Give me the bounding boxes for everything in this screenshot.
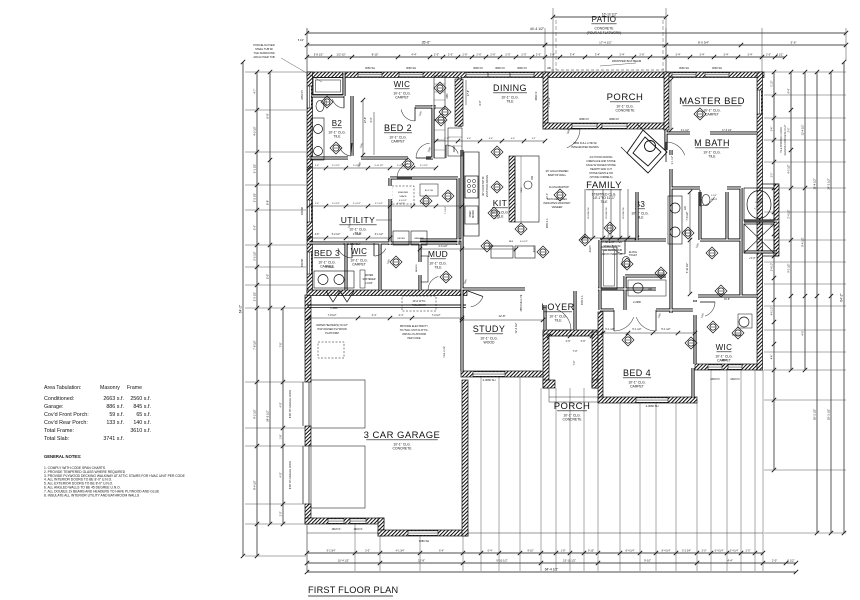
dim line right seg3 <box>804 72 806 370</box>
svg-text:PROVIDE ELECTRICITY: PROVIDE ELECTRICITY <box>400 325 429 328</box>
svg-text:2-1880: 2-1880 <box>330 308 338 310</box>
svg-text:2480: 2480 <box>447 93 449 99</box>
svg-text:3080 FX: 3080 FX <box>609 117 619 121</box>
right extension lines <box>764 71 846 73</box>
fireplace corner <box>621 124 667 173</box>
patio dim 16-10 <box>553 16 666 18</box>
svg-text:SOFTENER: SOFTENER <box>362 278 375 281</box>
svg-text:1'-8": 1'-8" <box>561 550 566 553</box>
svg-text:+ 5'-3": + 5'-3" <box>749 257 756 260</box>
svg-text:65 s.f.: 65 s.f. <box>136 412 151 418</box>
svg-text:KIT: KIT <box>493 198 507 208</box>
dim string wic1 vertical <box>465 80 467 105</box>
utility freezer <box>392 186 414 204</box>
hall linen closets <box>434 76 445 108</box>
b2 toilet <box>316 101 324 112</box>
svg-text:886 s.f.: 886 s.f. <box>106 404 124 410</box>
svg-text:TILE: TILE <box>434 266 442 270</box>
mbath toilet <box>702 195 710 206</box>
svg-text:12'-0": 12'-0" <box>667 97 670 103</box>
interior walls <box>309 72 777 398</box>
dim string kitchen <box>420 248 516 250</box>
svg-text:54'-5 1/2": 54'-5 1/2" <box>266 410 270 421</box>
svg-text:4'-0": 4'-0" <box>280 402 283 407</box>
door arcs bed4 double <box>614 317 634 331</box>
dim string master vertical <box>670 80 672 130</box>
svg-text:FLUSH BARTOP: FLUSH BARTOP <box>549 185 569 189</box>
svg-text:8'-4 1/4": 8'-4 1/4" <box>662 550 671 553</box>
svg-text:ARCH OVER TUB: ARCH OVER TUB <box>253 55 275 59</box>
garage interior rects <box>311 380 365 428</box>
svg-text:4'-0": 4'-0" <box>280 472 283 477</box>
svg-text:ARCH: ARCH <box>589 245 592 252</box>
svg-text:3080 SH: 3080 SH <box>419 539 430 543</box>
svg-text:2'-5 1/2": 2'-5 1/2" <box>253 251 257 261</box>
door gaps in interior walls <box>348 156 361 161</box>
svg-text:64'-2": 64'-2" <box>840 292 844 301</box>
svg-text:TILE SHOWER FLOOR: TILE SHOWER FLOOR <box>780 127 783 153</box>
svg-text:2'-6": 2'-6" <box>462 53 467 57</box>
svg-text:TILE: TILE <box>333 135 341 139</box>
svg-text:4'-6 1/2": 4'-6 1/2" <box>520 241 528 243</box>
svg-text:MASTER BED: MASTER BED <box>679 96 745 107</box>
svg-text:MUD: MUD <box>428 249 448 259</box>
svg-text:4'-6 1/2": 4'-6 1/2" <box>399 200 407 202</box>
window garage bottom <box>408 531 438 536</box>
stoop right wall <box>592 332 598 388</box>
study front wall <box>461 371 545 377</box>
svg-text:5'-2 1/2": 5'-2 1/2" <box>332 165 340 167</box>
svg-text:5'-4 1/4": 5'-4 1/4" <box>715 550 724 553</box>
dim line right outermost 64-2 <box>843 62 845 533</box>
svg-text:8'X8' OH GARAGE DOOR: 8'X8' OH GARAGE DOOR <box>289 390 292 418</box>
window left wall b2 <box>307 86 311 108</box>
svg-text:3'-4": 3'-4" <box>570 53 575 57</box>
svg-text:3'-0": 3'-0" <box>365 550 370 553</box>
dim line left garage <box>282 308 284 524</box>
svg-text:PORCELIN OVER: PORCELIN OVER <box>253 43 274 47</box>
svg-text:9'-2 1/2": 9'-2 1/2" <box>253 409 257 419</box>
svg-text:Frame: Frame <box>127 385 142 391</box>
svg-text:TILE: TILE <box>554 319 562 323</box>
attic pulldown <box>402 296 436 311</box>
b3 bath tub <box>601 247 617 289</box>
svg-text:PORCELIN OVER: PORCELIN OVER <box>602 241 623 244</box>
dim line right seg5 <box>830 72 832 533</box>
svg-text:3'-0": 3'-0" <box>772 173 774 178</box>
svg-text:BENCH: BENCH <box>416 264 418 272</box>
bottom dim row 3 total <box>307 571 796 573</box>
b3 lav <box>633 283 643 293</box>
ceiling fan diamonds <box>402 158 414 170</box>
svg-text:HIGH RAISED PLYWOOD: HIGH RAISED PLYWOOD <box>317 328 347 331</box>
dim line left third <box>269 72 271 524</box>
svg-text:44'-4 1/2": 44'-4 1/2" <box>530 27 545 31</box>
svg-text:5 1/2": 5 1/2" <box>772 80 774 86</box>
svg-text:5'-1 1/2": 5'-1 1/2" <box>632 328 641 331</box>
svg-text:3060 SH: 3060 SH <box>679 66 689 70</box>
svg-text:8'-9": 8'-9" <box>266 200 270 205</box>
svg-text:8'-4 1/4": 8'-4 1/4" <box>626 550 635 553</box>
bottom dim row 2 <box>307 562 796 564</box>
window study front <box>473 372 505 377</box>
svg-text:4'-4": 4'-4" <box>511 138 516 140</box>
family strip dim <box>583 237 637 239</box>
door arc b2 toilet <box>332 99 344 108</box>
svg-text:2'-3 1/2": 2'-3 1/2" <box>253 292 257 302</box>
svg-text:FIREPLACE AND STONE: FIREPLACE AND STONE <box>587 160 616 163</box>
patio extension lines <box>552 8 554 72</box>
dim line right seg4 <box>816 72 818 533</box>
svg-text:FACE W/ RAISED STONE: FACE W/ RAISED STONE <box>586 164 616 167</box>
svg-text:5'-10 1/2": 5'-10 1/2" <box>686 263 689 274</box>
garage left wall segments <box>305 295 311 382</box>
svg-text:WOODLOOK: WOODLOOK <box>588 207 590 219</box>
door arc mud garage <box>428 277 438 291</box>
svg-text:RECESS CONCRETE 3 1/2": RECESS CONCRETE 3 1/2" <box>784 124 787 155</box>
svg-text:9'-10": 9'-10" <box>588 550 594 553</box>
svg-text:1818: 1818 <box>721 359 727 362</box>
svg-text:CARPET: CARPET <box>352 263 366 267</box>
bottom left extension <box>306 524 308 571</box>
svg-text:12'-8": 12'-8" <box>498 314 505 318</box>
svg-text:2680 S.C.: 2680 S.C. <box>547 218 549 229</box>
svg-text:10'-4 1/2": 10'-4 1/2" <box>338 559 349 563</box>
svg-text:BARTOP WALL: BARTOP WALL <box>548 173 567 177</box>
svg-text:4'-6 1/2": 4'-6 1/2" <box>772 307 774 316</box>
svg-text:4'-4": 4'-4" <box>372 314 377 317</box>
svg-text:LOOP: LOOP <box>366 282 373 285</box>
svg-text:2-3060 SH: 2-3060 SH <box>483 378 496 382</box>
svg-text:WIC: WIC <box>394 80 411 89</box>
door arc wic mid <box>374 249 386 257</box>
svg-text:133 s.f.: 133 s.f. <box>106 420 124 426</box>
dim string bed2 block bottom <box>309 167 436 169</box>
svg-text:4'-0 1/2": 4'-0 1/2" <box>788 164 791 173</box>
svg-text:PULL DOWN: PULL DOWN <box>412 305 426 307</box>
garage bottom windows 1818 <box>328 519 344 524</box>
svg-text:4'-1": 4'-1" <box>532 138 537 140</box>
svg-text:CONCRETE: CONCRETE <box>615 109 635 113</box>
svg-text:3'-6": 3'-6" <box>566 340 571 343</box>
svg-text:2'-4 1/2": 2'-4 1/2" <box>788 209 791 218</box>
svg-text:(STONE CORBELS): (STONE CORBELS) <box>590 176 613 179</box>
svg-text:4'-4": 4'-4" <box>399 314 404 317</box>
svg-text:2'-4 1/2": 2'-4 1/2" <box>353 203 361 205</box>
dim line top outermost 44-4.5 <box>307 32 846 34</box>
svg-text:3'-6": 3'-6" <box>581 340 586 343</box>
door arc bed2 entry <box>416 143 430 158</box>
svg-text:Conditioned:: Conditioned: <box>44 396 74 402</box>
svg-text:9'-4 1/2": 9'-4 1/2" <box>801 237 805 247</box>
svg-text:2'-0": 2'-0" <box>746 550 751 553</box>
svg-text:1818 FX: 1818 FX <box>730 378 740 381</box>
svg-text:3'-4": 3'-4" <box>550 53 555 57</box>
svg-text:2880 FULL LITE: 2880 FULL LITE <box>521 294 523 311</box>
svg-text:MICRO: MICRO <box>473 210 475 218</box>
svg-text:CARPET: CARPET <box>395 96 409 100</box>
svg-text:59 s.f.: 59 s.f. <box>109 412 124 418</box>
dim string foyer stoop <box>549 335 592 337</box>
svg-text:WATER: WATER <box>365 274 374 277</box>
mud bench <box>421 256 428 282</box>
svg-text:HATCHED AREA: HATCHED AREA <box>547 197 567 201</box>
svg-text:64'-2": 64'-2" <box>239 304 243 313</box>
svg-text:7'-0 1/2": 7'-0 1/2" <box>445 206 447 214</box>
svg-text:2'-6": 2'-6" <box>490 53 495 57</box>
svg-text:INDICATES MASONRY: INDICATES MASONRY <box>543 201 571 205</box>
svg-text:5'-1 1/2": 5'-1 1/2" <box>605 328 614 331</box>
dim string b2 vertical <box>362 100 364 155</box>
door arc b2 hall <box>339 145 351 156</box>
dim string bed3 top <box>309 237 390 239</box>
svg-text:CARPET: CARPET <box>391 140 405 144</box>
door arc b3 <box>612 245 625 254</box>
svg-text:5'-1 1/2": 5'-1 1/2" <box>375 203 383 205</box>
garage top wall <box>307 290 467 296</box>
svg-text:5'-0": 5'-0" <box>266 274 270 279</box>
dim line top 17-4 patio <box>545 44 846 46</box>
svg-text:20'-0": 20'-0" <box>547 193 549 199</box>
svg-text:3610 s.f.: 3610 s.f. <box>130 428 151 434</box>
mbath soaking tub <box>744 188 774 221</box>
dim line left outermost 64-2 <box>242 62 244 556</box>
kitchen oven micro <box>465 206 478 224</box>
door arc patio family <box>567 129 580 148</box>
svg-text:3741 s.f.: 3741 s.f. <box>103 436 124 442</box>
windows porch bottom wall <box>572 124 597 129</box>
svg-text:7'-8 1/2": 7'-8 1/2" <box>328 314 337 317</box>
svg-text:M BATH: M BATH <box>694 138 730 148</box>
svg-text:TILE SURROUND: TILE SURROUND <box>253 51 274 55</box>
svg-text:TO HVAC UNIT IN ATTIC,: TO HVAC UNIT IN ATTIC, <box>400 329 429 332</box>
svg-text:GENERAL NOTES:: GENERAL NOTES: <box>44 454 81 459</box>
svg-text:PLATFORM: PLATFORM <box>325 332 338 335</box>
window right wall master <box>757 90 761 114</box>
svg-text:30'-3 1/2": 30'-3 1/2" <box>813 409 817 420</box>
svg-text:7'-10 1/2": 7'-10 1/2" <box>548 97 551 107</box>
svg-text:DRYER: DRYER <box>397 238 405 240</box>
svg-text:PATIO: PATIO <box>592 15 617 24</box>
svg-text:PORCH: PORCH <box>607 92 644 103</box>
svg-text:CONCRETE: CONCRETE <box>392 447 412 451</box>
foyer front wall <box>543 330 600 336</box>
svg-text:12'-4 1/2": 12'-4 1/2" <box>514 322 518 333</box>
water heater platform <box>318 342 344 358</box>
door arc study <box>471 297 483 307</box>
svg-text:2'-0": 2'-0" <box>536 53 541 57</box>
bottom dim row 1 <box>307 552 763 554</box>
door arc bed3 <box>338 248 352 258</box>
svg-text:TIME STOP: TIME STOP <box>444 346 446 358</box>
svg-text:CONCRETE: CONCRETE <box>562 418 582 422</box>
dim line top master segments <box>666 56 785 58</box>
svg-text:17'-8": 17'-8" <box>467 90 470 96</box>
dim string bed4 <box>603 332 695 334</box>
svg-text:(POUR AS FLATWORK): (POUR AS FLATWORK) <box>587 31 622 35</box>
exterior wall top <box>307 72 764 78</box>
top extension lines <box>306 28 308 72</box>
svg-text:BU 6' SH: BU 6' SH <box>425 190 434 192</box>
svg-text:B2: B2 <box>332 119 343 128</box>
svg-text:6'-4": 6'-4" <box>439 550 444 553</box>
svg-text:9'-0": 9'-0" <box>370 117 373 122</box>
svg-text:BED 2: BED 2 <box>384 123 412 133</box>
svg-text:Cov'd Rear Porch:: Cov'd Rear Porch: <box>44 420 88 426</box>
svg-text:WOODLOOK: WOODLOOK <box>623 207 625 219</box>
dim string mbath vertical <box>689 192 691 294</box>
svg-text:2'-4 1/2": 2'-4 1/2" <box>353 234 362 236</box>
svg-text:12'-4 1/2": 12'-4 1/2" <box>801 124 805 135</box>
svg-text:1'-11": 1'-11" <box>444 138 450 140</box>
mbath bumpout wall <box>774 184 779 256</box>
svg-text:3060SH: 3060SH <box>302 207 304 216</box>
bed3 bifold door <box>326 291 354 302</box>
svg-text:HEARTH AND CUT: HEARTH AND CUT <box>590 168 612 171</box>
dim chain utility mid y206 <box>309 205 462 207</box>
svg-text:17'-0 1/2": 17'-0 1/2" <box>722 130 732 132</box>
svg-text:STONE MANTLE OR: STONE MANTLE OR <box>589 172 613 175</box>
svg-text:Garage:: Garage: <box>44 404 63 410</box>
svg-text:8. INSULATE ALL INTERIOR UTILI: 8. INSULATE ALL INTERIOR UTILITY AND BAT… <box>44 493 140 497</box>
svg-text:2'-0": 2'-0" <box>505 53 510 57</box>
svg-text:3'-0": 3'-0" <box>702 550 707 553</box>
svg-text:3'-4": 3'-4" <box>619 53 624 57</box>
svg-text:35'-6": 35'-6" <box>422 41 431 45</box>
svg-text:3'-4": 3'-4" <box>748 54 753 57</box>
dim line top segments <box>307 56 666 58</box>
svg-text:CARPET: CARPET <box>705 113 719 117</box>
door arc mbath hall <box>700 197 715 206</box>
dim chain kitchen dining y141 <box>436 140 545 142</box>
dim line right seg2 <box>790 72 792 370</box>
svg-text:3060 SH: 3060 SH <box>365 66 375 70</box>
svg-text:9'-10 1/2": 9'-10 1/2" <box>496 559 507 563</box>
svg-text:4'-0": 4'-0" <box>801 330 805 335</box>
mbath lavs <box>668 196 682 244</box>
bottom vertical extension lines <box>306 524 308 571</box>
svg-text:6' WALL: 6' WALL <box>326 266 336 269</box>
svg-text:9'-2 3/4": 9'-2 3/4" <box>327 550 336 553</box>
svg-text:4'-6 1/2": 4'-6 1/2" <box>438 245 447 248</box>
svg-text:2663 s.f.: 2663 s.f. <box>103 396 124 402</box>
svg-text:12'-8": 12'-8" <box>364 117 367 123</box>
svg-text:LAV: LAV <box>684 205 687 210</box>
door arc front entry <box>557 309 572 330</box>
svg-text:VENEER: VENEER <box>552 205 563 209</box>
svg-text:2'-4 1/2": 2'-4 1/2" <box>397 165 405 167</box>
svg-text:2'-0": 2'-0" <box>772 559 777 563</box>
svg-text:HB: HB <box>547 66 551 70</box>
svg-text:9'-4": 9'-4" <box>772 127 774 132</box>
svg-text:2'-3 1/2": 2'-3 1/2" <box>253 193 257 203</box>
svg-text:20'-3 1/2": 20'-3 1/2" <box>827 409 831 420</box>
svg-text:WATER HEATER(S) ON 18": WATER HEATER(S) ON 18" <box>316 324 348 327</box>
svg-text:PER CODE: PER CODE <box>407 337 420 340</box>
svg-text:7'-8 1/2": 7'-8 1/2" <box>253 340 257 350</box>
svg-text:20'x4' ATTIC: 20'x4' ATTIC <box>413 300 426 303</box>
svg-text:3'-1 1/2": 3'-1 1/2" <box>681 130 690 132</box>
svg-text:FIRST FLOOR PLAN: FIRST FLOOR PLAN <box>308 585 398 595</box>
svg-text:PORCH: PORCH <box>554 401 591 412</box>
svg-text:3060 FX: 3060 FX <box>495 66 505 70</box>
tub top left <box>313 78 343 95</box>
svg-text:36" COOKTOP W/: 36" COOKTOP W/ <box>482 176 485 196</box>
kitchen cooktop <box>465 176 478 198</box>
svg-text:CONCRETE: CONCRETE <box>594 27 614 31</box>
svg-text:STUDY: STUDY <box>473 324 506 334</box>
svg-text:1818 FX: 1818 FX <box>710 378 720 381</box>
svg-text:4'-5 1/2": 4'-5 1/2" <box>253 126 257 136</box>
svg-text:7'-0": 7'-0" <box>573 360 576 365</box>
svg-text:FREEZER: FREEZER <box>398 192 409 194</box>
svg-text:8'-9": 8'-9" <box>266 113 270 118</box>
porch left wall <box>543 72 548 129</box>
svg-text:SPACE: SPACE <box>399 195 407 198</box>
b3 west wall <box>635 192 638 240</box>
svg-text:Total Frame:: Total Frame: <box>44 428 74 434</box>
right exterior wall <box>757 72 763 370</box>
svg-text:ARCH: ARCH <box>533 245 536 252</box>
svg-text:845 s.f.: 845 s.f. <box>133 404 151 410</box>
svg-text:WOODLOOK: WOODLOOK <box>606 207 608 219</box>
svg-text:9'-10": 9'-10" <box>644 559 651 563</box>
svg-text:INSTALL PLATFORM: INSTALL PLATFORM <box>402 333 426 336</box>
window bed4 bottom <box>636 398 668 403</box>
svg-text:8'X8' OH GARAGE DOOR: 8'X8' OH GARAGE DOOR <box>289 461 292 489</box>
svg-text:2'-6": 2'-6" <box>476 53 481 57</box>
svg-text:3'-4": 3'-4" <box>676 54 681 57</box>
svg-text:8'-9": 8'-9" <box>479 100 482 105</box>
svg-text:5'-1 1/2": 5'-1 1/2" <box>661 328 670 331</box>
master porch divider wall <box>664 72 669 130</box>
utility shelf box <box>420 184 438 196</box>
svg-text:STEEL TUB W/: STEEL TUB W/ <box>255 47 273 51</box>
svg-text:3060 FX: 3060 FX <box>535 91 538 100</box>
svg-text:1818 FX: 1818 FX <box>353 528 362 531</box>
svg-text:3'-4 1/4": 3'-4 1/4" <box>730 550 739 553</box>
svg-text:2'-6": 2'-6" <box>639 53 644 57</box>
svg-text:8'-4 1/2": 8'-4 1/2" <box>253 480 257 490</box>
svg-text:FAMILY: FAMILY <box>586 180 622 191</box>
svg-text:3060 SH: 3060 SH <box>406 66 416 70</box>
svg-text:TILE: TILE <box>506 100 514 104</box>
svg-text:1'/2'-10": 1'/2'-10" <box>336 53 345 57</box>
svg-text:SINK: SINK <box>521 187 523 193</box>
svg-text:7'-0": 7'-0" <box>573 350 578 353</box>
svg-text:2'-6": 2'-6" <box>315 203 320 205</box>
svg-text:3'-6": 3'-6" <box>791 41 797 45</box>
svg-text:5'-8 1/2": 5'-8 1/2" <box>314 53 324 57</box>
patio slab dashes <box>555 20 557 70</box>
svg-text:4'-4": 4'-4" <box>489 138 494 140</box>
svg-text:9'-4": 9'-4" <box>788 88 791 93</box>
kitchen island <box>509 156 515 222</box>
svg-text:ELONG: ELONG <box>629 252 637 254</box>
left wall windows bed3 hall <box>307 200 311 222</box>
garage bottom wall <box>305 518 384 524</box>
svg-text:3060 FX: 3060 FX <box>473 66 483 70</box>
porch bottom wall <box>543 123 668 129</box>
svg-text:9'-1 1/2": 9'-1 1/2" <box>788 263 791 272</box>
svg-text:2'-0": 2'-0" <box>434 53 439 57</box>
svg-text:5'-1 1/2": 5'-1 1/2" <box>253 164 257 174</box>
svg-text:4'-4": 4'-4" <box>488 245 493 248</box>
svg-text:TOILET: TOILET <box>629 255 638 257</box>
svg-text:2'-6": 2'-6" <box>315 165 320 167</box>
svg-text:5 1/2": 5 1/2" <box>777 54 784 57</box>
hall door arc <box>446 145 458 154</box>
